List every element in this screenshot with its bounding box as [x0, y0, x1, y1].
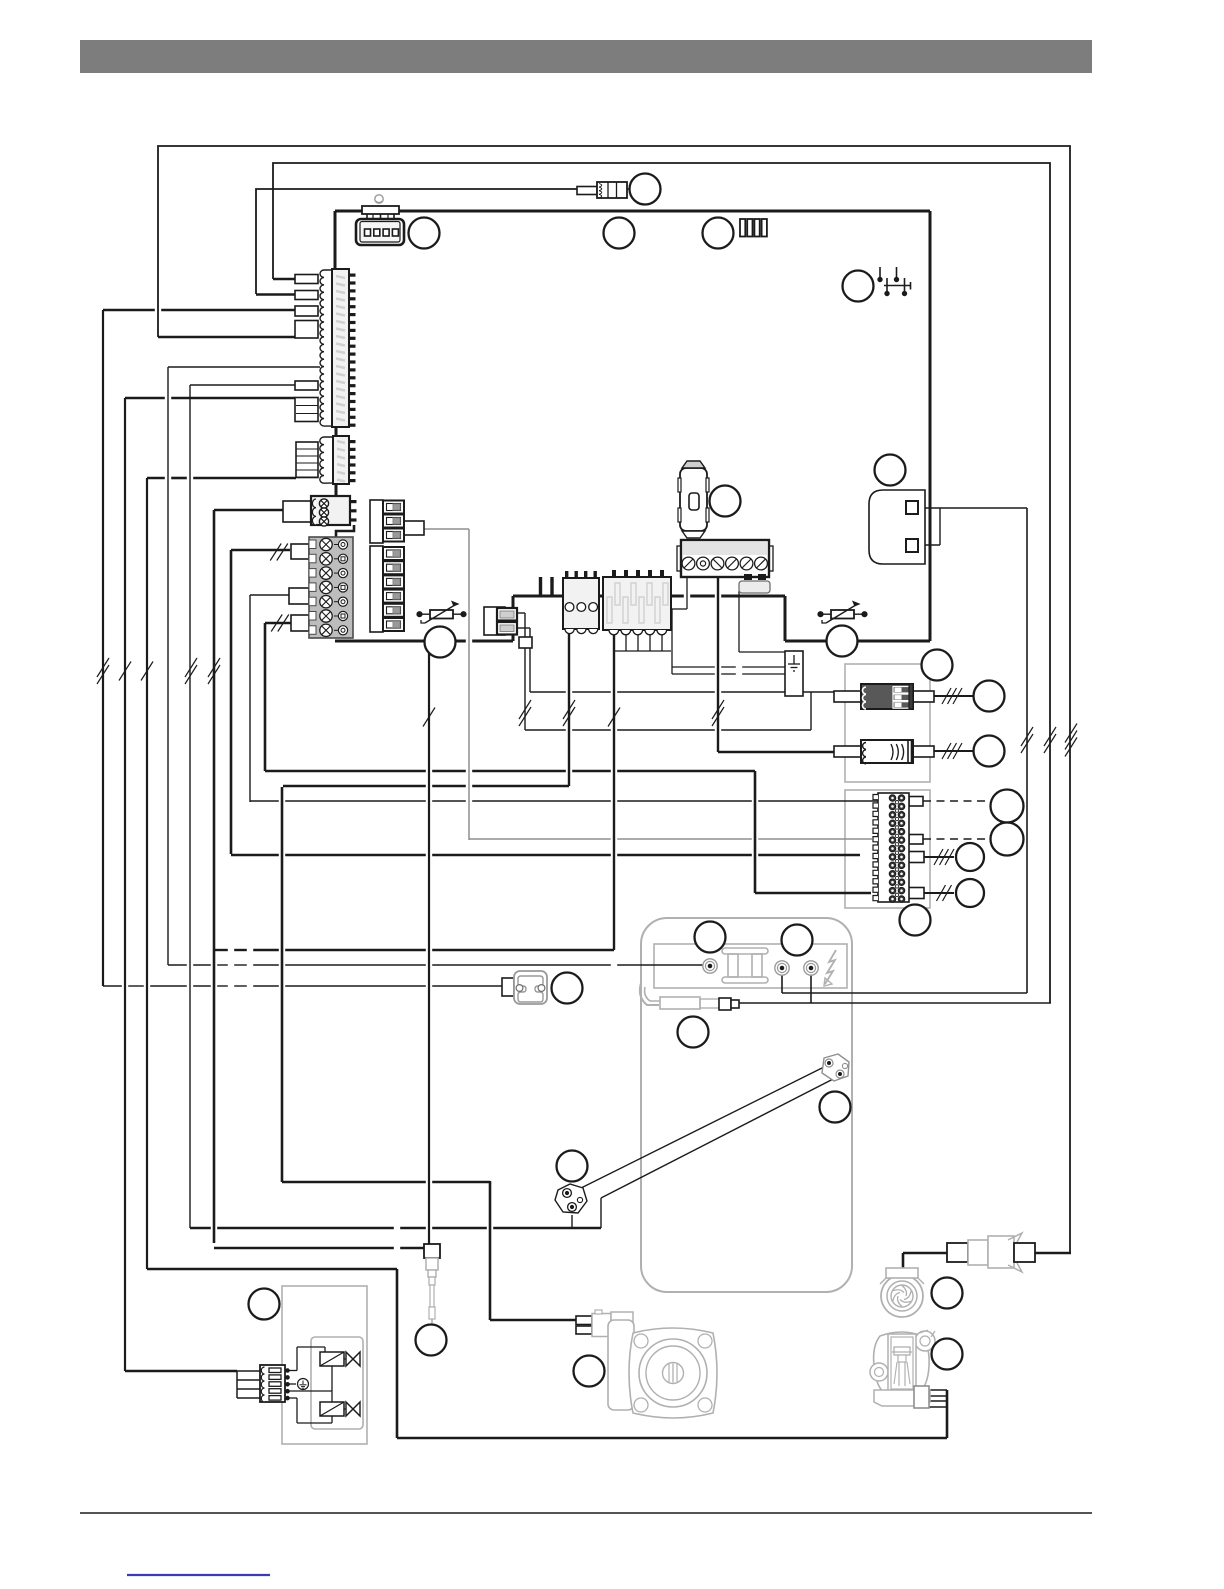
callout circle 20 — [552, 973, 583, 1004]
thermistor symbol right — [818, 602, 867, 623]
relay1 fuses — [893, 687, 910, 709]
callout circle 27 — [425, 627, 456, 658]
block X41 pins — [565, 571, 597, 578]
wire earth box upper — [672, 666, 785, 668]
igniter body — [426, 1258, 438, 1326]
callout circle 23 — [932, 1278, 963, 1309]
relay gray frame box 2 — [845, 790, 930, 908]
wire pin direct feed — [168, 366, 320, 368]
wire v103 — [102, 310, 104, 986]
callout circle 19 — [820, 1092, 851, 1123]
connector X1 pins — [349, 274, 356, 427]
callout circle 22 — [574, 1356, 605, 1387]
mains plug outline — [869, 490, 925, 564]
wire v530 — [529, 628, 531, 692]
hash v1050 — [1044, 727, 1056, 753]
wire spark terminal run — [168, 964, 703, 966]
wire 2pin link a — [517, 612, 525, 614]
relay2 hash — [942, 743, 962, 759]
wire v525 — [524, 613, 526, 730]
heat-cell housing outline — [641, 918, 852, 1292]
pump terminal box — [608, 1312, 634, 1410]
wire mid thick run950 — [215, 949, 614, 951]
ignition transformer icon — [722, 948, 768, 983]
PCB bottom mid edge — [513, 595, 785, 598]
service connector key icon — [375, 195, 383, 203]
terminal block 7way body — [309, 537, 353, 638]
callout circle 9 — [974, 681, 1005, 712]
wire stub5 feed — [190, 384, 295, 386]
wire v1027 — [1026, 508, 1028, 993]
wire v638 — [637, 630, 639, 651]
wire v601 sensor elbow — [600, 1198, 602, 1228]
wire v147 — [146, 478, 148, 1269]
wire fuse gray link — [424, 528, 469, 530]
callout circle 28 — [827, 626, 858, 657]
wire strip feed856 thick — [231, 854, 860, 857]
ignition lead 2 — [601, 1076, 839, 1198]
fuse bank lower rail — [370, 546, 383, 632]
wire v782 — [781, 975, 783, 993]
block X41 loops — [565, 629, 598, 634]
igniter connector — [424, 1244, 440, 1258]
strip dashed wire839 — [923, 838, 991, 840]
wire v397 — [396, 1269, 399, 1438]
board plug X77 — [577, 182, 627, 198]
fuse F2-6 — [383, 618, 404, 631]
fuse F1-3 — [383, 529, 404, 542]
fuse holder window — [689, 493, 699, 510]
PCB left edge lower2 — [335, 483, 338, 496]
valve conn wire2 — [237, 1379, 260, 1381]
valve-group outer gray box — [282, 1286, 367, 1444]
relay2 body — [861, 740, 913, 763]
stub s6 — [295, 398, 318, 422]
fan connector left stub — [947, 1243, 968, 1262]
pump hub — [663, 1363, 684, 1384]
connector 2pin t2 — [497, 622, 517, 635]
gas valve ear left — [870, 1363, 888, 1381]
stub strip R801 — [909, 797, 923, 807]
block X41 screws — [565, 603, 597, 612]
stub strip R893 — [907, 888, 924, 899]
relay2 left stub — [834, 746, 861, 757]
wire v811b — [810, 692, 812, 730]
relay gray frame box 1 — [845, 664, 930, 782]
wire fan link left — [903, 1252, 947, 1255]
spark terminal 1 — [703, 959, 717, 973]
wire earth drop link — [672, 608, 687, 610]
ignition-unit inner panel — [654, 944, 847, 988]
callout circle 1 — [630, 174, 661, 205]
wire v947 gasvalve — [946, 1390, 949, 1438]
PCB bottom right edge — [785, 640, 930, 643]
callout circle 12 — [991, 823, 1024, 856]
wire stub1 feed — [273, 278, 295, 280]
wire strip feed840 gray — [469, 838, 872, 840]
relay1 out wire — [934, 695, 973, 697]
wire relay1 feed2 — [525, 729, 811, 731]
stub s5 — [295, 381, 318, 390]
gas valve connector — [914, 1386, 929, 1408]
fuse F2-3 — [383, 575, 404, 588]
gas valve coil plug — [719, 998, 739, 1010]
callout circle 16 — [695, 922, 726, 953]
jumper icon — [878, 267, 911, 296]
pump body — [629, 1328, 717, 1418]
terminal strip body — [878, 793, 909, 902]
gas valve ear right — [915, 1330, 935, 1351]
strip dashed wire801 — [923, 800, 991, 802]
terminal 3pole zigzag — [312, 499, 316, 525]
gas valve base — [874, 1390, 930, 1406]
wire v231 — [230, 550, 233, 854]
fan body — [881, 1275, 923, 1317]
wire v429 — [428, 643, 430, 1244]
callout circle 8 — [922, 650, 953, 681]
callout circle 18 — [678, 1017, 709, 1048]
relay2 out wire — [934, 750, 973, 752]
wire valve thick run — [147, 1268, 397, 1271]
terminal block 7way screws — [320, 538, 332, 636]
ignition lead 1 — [567, 1065, 828, 1195]
solenoid 2 — [320, 1402, 344, 1416]
stub s2 — [295, 291, 318, 300]
wire v569 — [568, 634, 570, 786]
wire block bus 651 — [614, 650, 671, 652]
wire valve conn feed — [125, 1370, 237, 1373]
callout circle 5 — [843, 271, 874, 302]
service connector body — [356, 219, 404, 245]
mains plug pin2 — [906, 539, 918, 552]
wire v940 bracket — [939, 508, 941, 545]
terminal X31 lower pins — [744, 574, 766, 580]
wire flame-sensor run — [190, 1227, 601, 1230]
valve symbol 2 — [344, 1402, 360, 1416]
valve connector zigzag — [261, 1367, 264, 1402]
gas valve coil icon — [640, 983, 719, 1009]
hash v429 — [423, 708, 435, 727]
spark arrow icon — [824, 950, 836, 986]
PCB notch edge — [512, 596, 515, 641]
wire v662 — [661, 630, 663, 651]
pressure switch terms — [516, 985, 545, 992]
connector 2pin t1 — [497, 608, 517, 621]
PCB right edge — [929, 211, 932, 641]
header bar — [80, 40, 1092, 73]
wire pump connect — [490, 1319, 576, 1322]
flame sensor terms — [563, 1189, 583, 1212]
connector 2pin outer — [484, 607, 505, 635]
wire v490 — [489, 1181, 492, 1320]
wire thick 771 run — [265, 770, 755, 773]
stub ferrule 525 — [519, 637, 532, 648]
callout circle 6 — [875, 455, 906, 486]
hash v190 — [185, 658, 197, 684]
wire mains pin bracket h — [918, 544, 940, 546]
gasvalve wire2 — [929, 1395, 947, 1397]
relay1 coils — [863, 687, 866, 709]
earth symbol in box — [788, 655, 800, 671]
relay2 end bars — [908, 741, 912, 762]
connector X1 body — [332, 269, 349, 427]
wire stub3 feed — [103, 309, 295, 312]
wire pump run lower — [282, 1181, 490, 1184]
wire v265 — [264, 623, 267, 771]
wire stub2 feed — [256, 293, 295, 295]
terminal X31 body — [681, 540, 769, 577]
wire v282 — [281, 787, 284, 1182]
valve-group inner gray box — [311, 1337, 363, 1429]
pump bolts — [634, 1334, 712, 1412]
hash v214 — [208, 658, 220, 684]
DIP bars — [740, 219, 767, 237]
block X51 pins — [612, 570, 664, 578]
terminal strip contacts — [889, 795, 905, 903]
stub fuse wire — [404, 521, 424, 535]
hash v1071 — [1065, 724, 1077, 757]
wire strip feed893 thick — [755, 892, 871, 895]
terminal block 7way rings — [334, 540, 348, 635]
stub gray3 — [291, 615, 309, 631]
fuse holder caps — [682, 461, 705, 538]
wire v755 thick — [754, 771, 757, 893]
wire earth box lower — [672, 673, 785, 675]
inner loop wire top+right — [273, 163, 1050, 1003]
wire valve bottom run — [397, 1437, 947, 1440]
fuse bank upper rail — [370, 500, 383, 543]
wire 3pole feed — [214, 509, 283, 512]
stub s1 — [295, 275, 318, 284]
PCB left edge jog — [336, 525, 354, 537]
fuse F2-2 — [383, 561, 404, 574]
strip out wire857 — [924, 856, 954, 858]
PCB step edge — [784, 596, 787, 641]
fuse F1-1 — [383, 501, 404, 514]
outer loop wire top+right — [158, 146, 1070, 1253]
strip hash857 — [934, 849, 954, 865]
wire spark-earth run — [738, 1002, 1051, 1004]
wire grayblock stub3 feed — [265, 622, 291, 625]
valve connector pins — [286, 1369, 290, 1400]
solenoid 1 — [320, 1352, 344, 1366]
valve symbol 1 — [344, 1352, 360, 1366]
footer rule — [80, 1512, 1092, 1514]
wire pump 786 link — [283, 785, 569, 787]
callout circle 14 — [956, 879, 984, 907]
wire v903 fan drop — [902, 1253, 905, 1271]
pressure switch body — [514, 971, 547, 1004]
thermistor symbol left — [417, 602, 466, 623]
valve earth symbol — [298, 1379, 309, 1390]
stub conn2 — [296, 442, 318, 478]
wire mains pin link — [918, 507, 1027, 509]
fuse F2-5 — [383, 604, 404, 617]
terminal X31 screws — [682, 557, 767, 570]
block X51 body — [603, 577, 671, 630]
wire v237 valve fan — [236, 1371, 238, 1398]
hash v125 — [119, 662, 131, 681]
connector X1 row marks — [336, 276, 345, 421]
block X41 body — [563, 578, 599, 629]
wire pressure-switch run — [103, 985, 502, 987]
wire v250 — [249, 595, 251, 802]
connector X2 pins — [349, 440, 356, 482]
wire v718 — [717, 577, 719, 752]
relay1 hash — [942, 688, 962, 704]
PCB top edge — [335, 210, 930, 213]
wire v168 — [167, 367, 169, 965]
relay1 body — [861, 684, 913, 709]
connector X2 row marks — [337, 441, 345, 482]
callout circle 10 — [974, 736, 1005, 767]
wire v469 gray — [468, 529, 470, 840]
gas valve body — [874, 1332, 930, 1394]
terminal 3pole screws — [319, 499, 328, 526]
wire v125 — [124, 398, 126, 1371]
relay2 winding — [891, 744, 904, 760]
PCB left edge — [334, 211, 337, 269]
wire earthbox feed653 — [739, 651, 785, 653]
hash stub gray3 — [271, 615, 289, 632]
terminal strip left tabs — [873, 795, 878, 901]
fuse F1-2 — [383, 515, 404, 528]
service connector contacts — [365, 229, 399, 236]
hash v1027 — [1021, 727, 1033, 753]
flame rod hex — [822, 1054, 849, 1081]
wire spark-live run — [782, 992, 1027, 994]
valve wiring — [288, 1347, 333, 1423]
terminal X31 top band — [683, 542, 767, 555]
wire v811 — [810, 975, 812, 1003]
callout circle 17 — [782, 925, 813, 956]
hash v569 — [563, 700, 575, 726]
relay1 left stub — [834, 691, 861, 702]
PCB bottom left edge — [335, 640, 513, 643]
fuse holder tabs — [678, 478, 709, 522]
stub gray2 — [289, 588, 309, 604]
gas valve inner — [888, 1334, 916, 1392]
fuse F2-4 — [383, 590, 404, 603]
wire relay2 feed thick — [718, 751, 834, 753]
stub s6 rows — [296, 406, 318, 414]
stub strip R839 — [909, 835, 923, 845]
relay2 coils — [863, 743, 866, 764]
service connector hat — [362, 206, 399, 221]
earth termination box — [785, 651, 803, 696]
wire v572 sensor drop — [571, 1215, 573, 1228]
spark terminal 2 — [775, 961, 789, 975]
footer link underline — [127, 1574, 270, 1576]
wire v190 — [189, 385, 191, 1228]
callout circle 25 — [416, 1325, 447, 1356]
callout circle 2 — [409, 218, 440, 249]
callout circle 13 — [956, 843, 984, 871]
PCB left edge lower1 — [335, 427, 338, 436]
strip hash893 — [937, 885, 952, 901]
wire grayblock stub2 feed — [250, 594, 289, 596]
pump face — [639, 1339, 707, 1407]
fuse holder body — [680, 468, 707, 531]
terminal 3pole pins — [350, 500, 357, 522]
relay1 end bar — [909, 684, 913, 709]
valve conn wire1 — [237, 1370, 260, 1372]
wire v614 thick — [613, 630, 615, 950]
wire relay1 feed — [530, 691, 834, 693]
pump connector blocks — [576, 1310, 611, 1337]
callout circle 11 — [991, 790, 1024, 823]
fuse F2-1 — [383, 547, 404, 560]
fan connector mid — [968, 1233, 1022, 1272]
callout circle 7 — [710, 486, 741, 517]
connector X1 zigzag strip — [320, 270, 332, 426]
relay1 right stub — [913, 691, 934, 702]
gasvalve wire4 — [929, 1406, 947, 1408]
wire strip feed801 — [250, 800, 878, 802]
fuse cover — [739, 581, 770, 593]
connector X2 zigzag strip — [320, 437, 333, 483]
callout circle 24 — [932, 1339, 963, 1370]
hash v614 — [608, 708, 620, 727]
hash v103 — [97, 658, 109, 684]
block X51 loops — [609, 630, 667, 635]
wire v739 — [738, 591, 740, 652]
valve conn wire3 — [237, 1388, 260, 1390]
wire grayblock stub1 feed — [231, 549, 290, 552]
wire plug to circle — [627, 188, 630, 190]
callout circle 3 — [604, 218, 635, 249]
valve connector cells — [269, 1368, 281, 1400]
hash stub gray1 — [270, 544, 288, 561]
wire 2pin link b — [517, 627, 530, 629]
terminal X31 side tabs — [677, 546, 773, 571]
connector X2 body — [333, 436, 349, 484]
stub s3 — [295, 306, 318, 316]
fan connector right stub — [1014, 1243, 1035, 1262]
terminal block 7way tabs — [309, 540, 316, 634]
callout circle 26 — [249, 1289, 280, 1320]
mains plug pin1 — [906, 501, 918, 514]
wire v650 — [649, 630, 651, 651]
hash v718 — [712, 700, 724, 726]
relay2 right stub — [913, 746, 934, 757]
wire conn2 feed — [147, 477, 296, 480]
wire v687 — [686, 577, 688, 609]
spark terminal 3 — [804, 961, 818, 975]
fan blades — [891, 1286, 914, 1307]
stub gray1 — [291, 544, 309, 559]
wire v214 — [213, 510, 216, 1243]
wire v672 — [671, 609, 673, 674]
strip out wire893 — [924, 892, 954, 894]
block X51 top stubs — [541, 577, 553, 596]
terminal 3pole body — [311, 496, 350, 525]
wire stub6 feed — [125, 397, 295, 400]
stub 3pole — [283, 501, 311, 522]
flame sensor hex — [555, 1184, 587, 1213]
controller plug wire — [256, 189, 577, 294]
stub conn2 rows — [296, 449, 318, 477]
gasvalve wire1 — [929, 1389, 947, 1391]
stub s4 — [295, 321, 318, 339]
hash v525 — [519, 700, 531, 726]
wire stub4 feed — [158, 336, 295, 339]
wire fan link right — [1035, 1252, 1071, 1255]
hash v147 — [141, 662, 153, 681]
valve connector body — [260, 1365, 285, 1402]
fan mount — [880, 1268, 924, 1284]
callout circle 15 — [900, 905, 931, 936]
